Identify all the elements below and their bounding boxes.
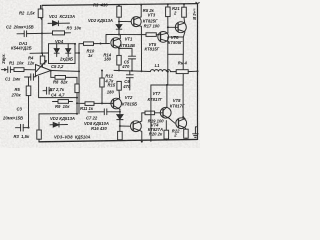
wire R5 column: [28, 77, 30, 86]
node lower tie: [76, 113, 78, 115]
node box corner: [74, 43, 76, 45]
node VT4 base: [119, 125, 121, 127]
resistor R18 100: [142, 111, 160, 115]
node B: [41, 52, 43, 54]
node box output: [78, 52, 80, 54]
node R11: [76, 102, 78, 104]
wire VT3 base: [119, 21, 131, 23]
resistor R20 top right: [166, 4, 171, 33]
diode VD2: [116, 25, 122, 35]
capacitor C4: [43, 87, 52, 94]
node output column: [78, 70, 80, 72]
resistor R8: [75, 84, 79, 114]
wire top supply rail: [42, 4, 198, 6]
wire box left leg: [167, 54, 169, 85]
transistor VT4: [131, 121, 142, 132]
wire VT3 emitter long: [140, 26, 142, 71]
wire lower tie: [39, 113, 77, 115]
capacitor C3: [16, 124, 29, 131]
node VD2 base: [118, 21, 120, 23]
wire mid rail: [114, 70, 150, 71]
node VT3 rail: [140, 4, 142, 6]
inductor L1: [150, 70, 170, 72]
wire VT4 base: [120, 125, 130, 127]
node R20 rail: [167, 3, 169, 5]
node C7 right: [119, 111, 121, 113]
input arrow: [2, 69, 7, 71]
wire feedback column: [78, 44, 80, 114]
node R12 top: [101, 70, 103, 72]
node mid 2: [131, 70, 133, 72]
op-amp DA1: [36, 65, 52, 77]
potentiometer arrow R4: [36, 61, 46, 72]
lower output frame: [151, 85, 183, 141]
wire VT6 emitter: [183, 32, 185, 37]
node output: [50, 70, 52, 72]
node base row: [118, 34, 120, 36]
resistor R14: [117, 55, 121, 70]
wire box output: [75, 52, 79, 54]
node L1 row crossing: [167, 71, 169, 73]
capacitor C6: [126, 71, 133, 90]
diode VD5: [66, 44, 71, 57]
wire VT7 collector column: [166, 85, 168, 107]
node VT1 emitter: [118, 47, 120, 49]
node VT4 rail: [141, 141, 143, 143]
wire bottom rail: [39, 139, 198, 141]
resistor R3 10k: [42, 31, 71, 35]
wire input column from R2: [41, 5, 43, 53]
resistor R4: [40, 53, 45, 67]
transistor VT1: [111, 38, 121, 49]
transistor VT2: [110, 98, 121, 109]
resistor R11: [77, 102, 110, 106]
wire mid lower: [39, 76, 77, 97]
resistor R9: [53, 100, 73, 104]
wire VT4 emitter: [141, 131, 142, 142]
node mid 1: [118, 69, 120, 71]
wire to detector box: [30, 52, 49, 54]
resistor R1: [14, 68, 36, 72]
wire VT7 emitter to VT8 base: [170, 119, 175, 124]
upper output box: [168, 37, 184, 54]
wire VT6 base: [168, 26, 178, 28]
diode VD4: [54, 44, 59, 57]
node VT8 collector: [182, 116, 184, 118]
wire VT4 collector: [141, 113, 142, 122]
transistor VT7: [159, 107, 171, 119]
capacitor input: [7, 67, 15, 73]
detector box DA1 aux: [49, 44, 76, 64]
diode VD3: [50, 122, 68, 127]
node Rn rail: [197, 70, 199, 72]
resistor Rn load: [170, 70, 197, 74]
wire VT1 emitter: [119, 48, 120, 55]
wire VT1 collector: [119, 35, 121, 39]
op-amp output wire: [51, 70, 79, 73]
diode VD9: [117, 115, 123, 132]
transistor VT5: [158, 32, 169, 43]
wire right rail: [197, 4, 199, 140]
node mid 3: [141, 70, 143, 72]
ground: [193, 127, 199, 138]
zener VD1: [48, 21, 70, 26]
resistor R6: [51, 71, 77, 84]
resistor R12: [100, 71, 104, 104]
node frame top: [166, 84, 168, 86]
resistor R22: [184, 128, 189, 140]
resistor R10: [79, 42, 110, 46]
terminal top right: [196, 2, 200, 3]
resistor R21 top right: [182, 4, 187, 23]
resistor R17: [146, 33, 158, 37]
node R21 rail: [183, 3, 185, 5]
node R10: [100, 43, 102, 45]
node A: [41, 32, 43, 34]
resistor R3 bottom 1.5k: [37, 114, 42, 142]
node R12 bottom: [101, 102, 103, 104]
wire base row VT1: [106, 35, 146, 44]
resistor R15: [117, 81, 121, 98]
resistor R19: [118, 131, 123, 140]
transistor VT6: [175, 22, 186, 33]
resistor R3 top 430: [117, 5, 122, 25]
resistor R5 270k: [26, 86, 31, 128]
capacitor C2: [17, 31, 42, 37]
capacitor C5: [119, 48, 136, 70]
node VT5 base col: [167, 26, 169, 28]
resistor R21 emitter: [164, 121, 169, 141]
capacitor C7: [88, 109, 120, 115]
wire VT8 collector: [183, 117, 185, 119]
wire box right leg: [182, 54, 184, 85]
capacitor C1 feedback: [25, 74, 37, 80]
wire VT3 collector: [140, 5, 142, 17]
wire VT2 emitter: [119, 109, 121, 114]
node C3: [28, 127, 30, 129]
transistor VT8: [176, 118, 187, 129]
node R8 bottom: [76, 97, 78, 99]
transistor VT3: [131, 17, 141, 27]
resistor R2: [38, 5, 43, 20]
scan grain overlay: [0, 0, 200, 148]
node R3 top: [118, 4, 120, 6]
